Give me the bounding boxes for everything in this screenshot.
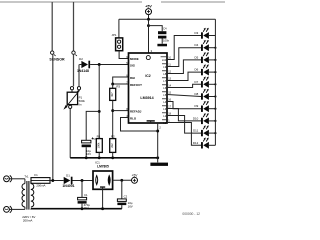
wire D3 to +5V rail: [209, 35, 216, 37]
svg-text:D10: D10: [193, 116, 199, 120]
label F1 rating: [36, 184, 45, 188]
svg-text:D11: D11: [193, 129, 198, 133]
label D8: [194, 92, 198, 96]
label D9: [194, 104, 198, 108]
wire +5V rail: [119, 18, 215, 20]
svg-text:REFADJ: REFADJ: [130, 110, 142, 114]
capacitor C2: [117, 199, 126, 205]
wire D2 anode up: [79, 65, 81, 87]
wire D11 to +5V rail: [209, 132, 216, 134]
svg-text:2k2: 2k2: [110, 143, 114, 148]
label C2: [124, 194, 128, 198]
label C1: [84, 193, 88, 197]
label SENSOR: [49, 58, 65, 62]
wire pin 16 to D9: [167, 102, 201, 109]
LED D3: [201, 28, 209, 39]
label 1N4001: [62, 184, 74, 188]
node junction D5/rail: [214, 59, 216, 61]
diode D2: [81, 61, 90, 69]
svg-text:C1: C1: [84, 193, 88, 197]
wire R1 top: [98, 65, 100, 139]
connector JP1: [116, 38, 123, 51]
node junction REFADJ: [111, 109, 114, 112]
svg-text:lin: lin: [79, 102, 82, 106]
label 1N4148: [77, 69, 89, 73]
svg-text:D3: D3: [194, 31, 198, 35]
svg-text:F1: F1: [34, 173, 38, 177]
svg-text:D5: D5: [194, 55, 198, 59]
wire pin 13 to D6: [167, 72, 201, 80]
svg-text:200mA: 200mA: [36, 184, 45, 188]
label D4: [194, 43, 198, 47]
LED D4: [201, 40, 209, 51]
svg-text:1N4148: 1N4148: [77, 69, 89, 73]
wire sensor right down: [73, 54, 75, 86]
voltage regulator IC1 LM7805: [93, 171, 113, 189]
svg-text:RHI: RHI: [130, 76, 135, 80]
LED D10: [201, 113, 209, 124]
node junction D10/rail: [214, 120, 216, 122]
label D11: [193, 129, 198, 133]
node junction C2 branch: [120, 179, 123, 182]
node junction +5V rail: [147, 18, 150, 21]
wire pin8 REFADJ: [113, 110, 129, 112]
svg-text:LM3914: LM3914: [140, 96, 153, 100]
wire pin 11 to D4: [167, 48, 201, 67]
wire D1 to IC1: [73, 180, 94, 182]
node P1 bottom terminal: [69, 105, 72, 108]
LED D8: [201, 89, 209, 100]
node junction D8/rail: [214, 95, 216, 97]
wire ac upper: [10, 179, 25, 184]
svg-text:16V: 16V: [128, 205, 133, 209]
node junction D7/rail: [214, 83, 216, 85]
wire D12 to +5V rail: [209, 144, 216, 146]
capacitor C1: [78, 197, 87, 203]
node junction R2/bus: [111, 156, 114, 159]
wire D4 to +5V rail: [209, 47, 216, 49]
capacitor C3: [82, 137, 94, 147]
node junction C1/bus: [81, 207, 84, 210]
node junction IC1gnd/bus: [101, 207, 104, 210]
diode D1: [64, 177, 73, 185]
LED D6: [201, 64, 209, 75]
op-amp U-symbol IC2 LM3914 box: [129, 53, 168, 123]
svg-text:MODE: MODE: [130, 57, 139, 61]
svg-text:D2: D2: [79, 57, 83, 61]
wire D7 to +5V rail: [209, 83, 216, 85]
wire sensor lead right: [73, 2, 75, 51]
wire D2 to pin5: [90, 64, 128, 66]
label LM7805: [97, 165, 109, 169]
LED D11: [201, 125, 209, 136]
wire pin 15 to D8: [167, 95, 201, 97]
wire sensor lead left: [51, 2, 53, 51]
wire pin7 REFOUT: [113, 83, 129, 85]
power +5V terminal output: [132, 173, 139, 183]
node junction D2/R1: [98, 63, 101, 66]
LED D5: [201, 52, 209, 63]
node junction D11/rail: [214, 132, 216, 134]
label D3: [194, 31, 198, 35]
wire to R3: [112, 84, 114, 88]
ground symbol C4: [157, 44, 167, 47]
node P1 top terminal A: [70, 87, 73, 90]
label C4: [163, 26, 167, 30]
svg-text:R1: R1: [97, 135, 101, 139]
wire JP1 to MODE: [119, 51, 128, 59]
wire pin 1 to D12: [167, 123, 201, 146]
label P1 500k lin: [79, 95, 86, 106]
transformer Tr1: [22, 181, 34, 210]
svg-text:JP1: JP1: [112, 33, 117, 37]
label JP1: [112, 33, 117, 37]
label C4 value: [163, 39, 170, 43]
node junction pin6/pin7: [111, 83, 114, 86]
label R2: [111, 135, 115, 139]
svg-text:+5V: +5V: [132, 173, 139, 177]
label D10: [193, 116, 199, 120]
wire P1 stubs: [72, 90, 79, 92]
wire D5 to +5V rail: [209, 59, 216, 61]
resistor R3: [110, 88, 116, 100]
svg-text:D1: D1: [66, 174, 70, 178]
node junction R1/bus: [98, 156, 101, 159]
svg-text:2: 2: [159, 126, 161, 130]
wire R2 bottom: [112, 152, 114, 157]
ac terminal lower: [4, 206, 12, 213]
svg-text:SENSOR: SENSOR: [49, 58, 65, 62]
LED D12: [201, 138, 209, 149]
label IC2 LED output names: [161, 57, 167, 125]
node junction bus/pin2: [156, 156, 159, 159]
node junction D9/rail: [214, 108, 216, 110]
label D12: [193, 141, 199, 145]
wire IC1 gnd: [102, 189, 104, 208]
node junction C4 branch: [147, 24, 150, 27]
svg-text:R2: R2: [111, 135, 115, 139]
wire D10 to +5V rail: [209, 120, 216, 122]
wire +5V LED rail: [214, 19, 216, 145]
label transformer rating: [22, 215, 35, 223]
wire rail to JP1: [118, 19, 120, 38]
page border top: [0, 1, 225, 3]
power +5V terminal top: [145, 4, 152, 14]
label pin3: [151, 49, 153, 53]
svg-text:16V: 16V: [86, 152, 91, 156]
wire P1 bottom to ground bus: [69, 109, 71, 158]
label F1: [34, 173, 38, 177]
svg-text:000000 - 12: 000000 - 12: [182, 212, 200, 216]
label C3 value: [86, 149, 91, 156]
svg-text:D7: D7: [194, 80, 198, 84]
ac terminal upper: [4, 175, 12, 182]
wire pin6 RHI: [113, 77, 129, 84]
resistor R2: [110, 139, 116, 153]
label IC1: [95, 161, 100, 165]
wire pin 17 to D10: [167, 109, 201, 121]
node junction sensor/ac: [51, 179, 54, 182]
node P1 wiper terminal: [77, 87, 80, 90]
wire fuse to D1: [50, 180, 64, 182]
LED D7: [201, 77, 209, 88]
node junction R1/C3: [98, 110, 101, 113]
svg-text:D4: D4: [194, 43, 198, 47]
svg-text:Tr1: Tr1: [24, 174, 29, 178]
wire pin 14 to D7: [167, 84, 201, 87]
svg-text:100n: 100n: [163, 39, 170, 43]
wire pin2 down: [157, 123, 159, 158]
wire R3 to R2: [112, 100, 114, 138]
node junction D6/rail: [214, 71, 216, 73]
label drawing number: [182, 212, 200, 216]
svg-text:C4: C4: [163, 26, 167, 30]
node sensor terminal right: [72, 51, 77, 56]
wire C4 down: [161, 39, 163, 44]
label Tr1: [24, 174, 29, 178]
wire C1 top: [81, 181, 83, 198]
svg-text:200mA: 200mA: [23, 219, 33, 223]
label R3: [116, 85, 120, 89]
label C3: [94, 137, 98, 141]
wire +5V down: [148, 15, 150, 20]
node junction C3/bus: [85, 156, 88, 159]
wire pin4 RLO return: [121, 118, 158, 132]
wire pin 12 to D5: [167, 60, 201, 74]
wire IC1 output: [113, 179, 132, 181]
wire D9 to +5V rail: [209, 108, 216, 110]
svg-text:RLO: RLO: [130, 116, 137, 120]
label right pin numbers: [168, 57, 171, 123]
node sensor terminal left: [51, 51, 56, 56]
svg-text:IC2: IC2: [145, 74, 150, 78]
wire D6 to +5V rail: [209, 71, 216, 73]
svg-text:100k: 100k: [96, 142, 100, 148]
potentiometer P1: [63, 90, 79, 109]
ground symbol upper: [150, 158, 168, 166]
wire C2 top: [121, 180, 123, 199]
wire pin 18 to D11: [167, 116, 201, 134]
svg-text:1N4001: 1N4001: [62, 184, 74, 188]
wire pin3 +5V: [148, 19, 150, 53]
svg-text:4k7: 4k7: [110, 92, 114, 97]
label C2 value: [128, 201, 133, 208]
wire secondary top to fuse: [30, 180, 32, 183]
wire C3 bottom: [85, 147, 87, 158]
resistor R1: [96, 139, 102, 153]
svg-text:D8: D8: [194, 92, 198, 96]
capacitor C4: [158, 31, 166, 38]
label D5: [194, 55, 198, 59]
label D6: [194, 68, 198, 72]
label C1 value: [84, 203, 91, 210]
label pin2: [159, 126, 161, 130]
svg-text:D6: D6: [194, 68, 198, 72]
wire C2 bottom: [121, 205, 123, 209]
label D7: [194, 80, 198, 84]
wire secondary bottom: [30, 208, 32, 211]
label D2: [79, 57, 83, 61]
wire pin 10 to D3: [167, 36, 201, 60]
wire D8 to +5V rail: [209, 96, 216, 98]
svg-text:LM7805: LM7805: [97, 165, 109, 169]
wire R1 bottom: [98, 152, 100, 157]
wire C4 branch: [149, 26, 163, 32]
svg-text:+5V: +5V: [145, 4, 152, 8]
fuse F1: [31, 178, 50, 184]
label D1: [66, 174, 70, 178]
svg-text:D12: D12: [193, 141, 199, 145]
wire C3 top: [86, 111, 99, 140]
svg-text:SIG: SIG: [130, 64, 136, 68]
wire ac lower: [10, 207, 25, 210]
svg-text:REFOUT: REFOUT: [130, 83, 142, 87]
svg-text:C3: C3: [94, 137, 98, 141]
wire bottom bus: [31, 208, 122, 210]
label left pin numbers: [126, 56, 128, 118]
svg-text:D9: D9: [194, 104, 198, 108]
svg-text:L10: L10: [162, 58, 167, 62]
wire C1 bottom: [81, 204, 83, 209]
wire sensor left down: [52, 54, 54, 180]
svg-text:R3: R3: [116, 85, 120, 89]
LED D9: [201, 101, 209, 112]
node junction pin4/pin2: [156, 130, 159, 133]
node junction D1/C1: [81, 179, 84, 182]
label R1: [97, 135, 101, 139]
wire ground bus: [70, 157, 158, 159]
node junction D4/rail: [214, 47, 216, 49]
svg-text:C2: C2: [124, 194, 128, 198]
